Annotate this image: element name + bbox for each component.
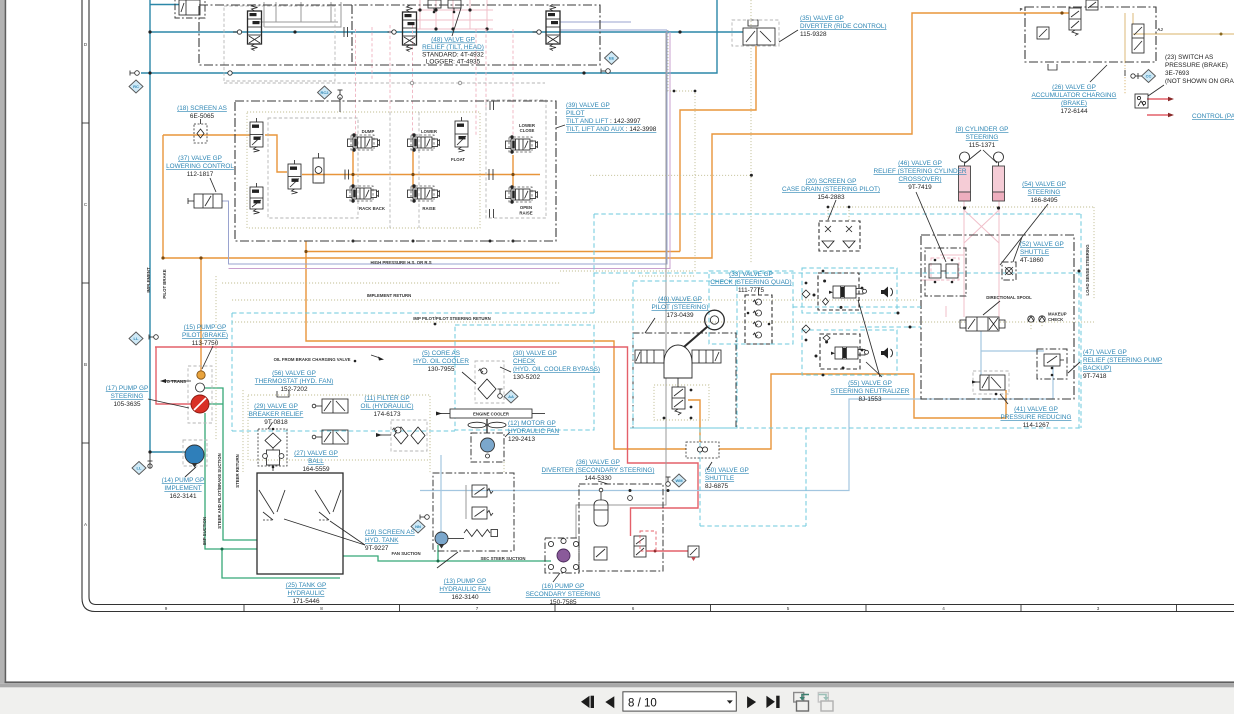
svg-text:(25) TANK GP: (25) TANK GP — [286, 582, 327, 589]
svg-text:BREAKER RELIEF: BREAKER RELIEF — [249, 411, 304, 418]
svg-text:166-8495: 166-8495 — [1030, 197, 1057, 204]
port circle on teal pilot line — [228, 71, 232, 75]
svg-text:CHECK: CHECK — [1048, 317, 1064, 322]
black dash-dot implement pilot valve bank (39) — [235, 101, 556, 241]
black dash-dot relief backup box (47) — [1037, 349, 1067, 379]
valve shuttle (52) — [1002, 262, 1016, 280]
svg-text:RAISE: RAISE — [422, 206, 435, 211]
wire orange screen feed — [163, 134, 250, 136]
svg-text:(35) VALVE GP: (35) VALVE GP — [800, 15, 844, 22]
svg-text:BALL: BALL — [308, 458, 324, 465]
wire orange bank verticals — [352, 151, 354, 188]
wire green tank bottom loop — [222, 549, 340, 578]
capacitor break on orange bus — [488, 169, 490, 180]
svg-text:B: B — [84, 362, 87, 367]
svg-text:IMPLEMENT: IMPLEMENT — [164, 485, 201, 492]
screen gp case drain (20) — [819, 221, 860, 251]
bank compensator — [313, 158, 324, 183]
svg-text:(BRAKE): (BRAKE) — [1061, 100, 1087, 107]
svg-text:105-3635: 105-3635 — [113, 401, 140, 408]
svg-text:9T-0818: 9T-0818 — [264, 419, 288, 426]
lowering control leader — [210, 178, 216, 192]
svg-text:164-5559: 164-5559 — [302, 466, 329, 473]
svg-text:EE: EE — [609, 56, 615, 61]
shuttle 52 leader — [1013, 237, 1022, 262]
relief cartridges above tilt valve — [428, 0, 441, 8]
svg-text:(41) VALVE GP: (41) VALVE GP — [1014, 406, 1058, 413]
valve breaker relief (29) and ball (27) assembly — [258, 429, 287, 466]
grey dashed pilot return horizontal — [224, 82, 545, 84]
wire lavender top links — [560, 21, 631, 23]
valve pressure reducing (41) internals — [980, 375, 1005, 390]
implement spool OPEN RAISE — [511, 189, 530, 200]
svg-text:MAKEUP: MAKEUP — [1048, 312, 1067, 317]
black dash-dot pilot steering enclosure (40) — [633, 333, 736, 428]
svg-text:OIL (HYDRAULIC): OIL (HYDRAULIC) — [360, 403, 413, 410]
frame row ticks — [82, 122, 89, 124]
svg-text:(56) VALVE GP: (56) VALVE GP — [272, 370, 316, 377]
wire orange lowering loop left — [162, 135, 164, 258]
EE diamond — [605, 52, 619, 65]
41 leader — [1000, 394, 1008, 404]
crossover relief valve (46) internals — [929, 264, 941, 278]
olive dotted bank inner box — [247, 112, 480, 228]
wire tan drop to switch — [1124, 62, 1126, 94]
svg-text:129-2413: 129-2413 — [508, 436, 535, 443]
svg-text:172-6144: 172-6144 — [1060, 108, 1087, 115]
svg-text:STANDARD: 4T-4932: STANDARD: 4T-4932 — [422, 51, 484, 58]
grey dashed bank column lines — [389, 112, 391, 228]
wire red to secondary diverter valve — [646, 550, 688, 552]
svg-text:5: 5 — [787, 606, 790, 611]
svg-text:SEC STEER SUCTION: SEC STEER SUCTION — [481, 556, 526, 561]
wire red pump riser — [156, 347, 191, 404]
light blue port circle — [628, 496, 633, 501]
wire grey top bus — [264, 2, 341, 27]
svg-text:RACK BACK: RACK BACK — [359, 206, 386, 211]
toolbar duplicate-page icon (disabled) — [818, 693, 828, 703]
wire orange H2 bus — [163, 13, 1069, 258]
pilot steering green dotted box — [654, 385, 709, 420]
bank mid valve — [288, 164, 301, 189]
svg-text:(16) PUMP GP: (16) PUMP GP — [542, 583, 585, 590]
wire pink cylinder lines — [963, 201, 965, 317]
cyan dashed big box right — [594, 272, 1081, 274]
svg-text:HYDRAULIC FAN: HYDRAULIC FAN — [439, 586, 491, 593]
wire teal top stub — [150, 4, 179, 6]
viewer background left strip — [0, 0, 5, 683]
bank solenoid valve upper — [250, 122, 263, 147]
core as hyd oil cooler (5) check bypass — [475, 361, 504, 403]
svg-text:PRESSURE (BRAKE): PRESSURE (BRAKE) — [1165, 62, 1228, 69]
svg-text:CHECK (STEERING QUAD): CHECK (STEERING QUAD) — [710, 279, 791, 286]
svg-text:162-3140: 162-3140 — [451, 594, 478, 601]
svg-text:171-5446: 171-5446 — [292, 598, 319, 605]
implement spool RACK BACK — [352, 188, 371, 199]
wire light blue cooler return bus — [440, 455, 442, 535]
green junction dots — [221, 548, 224, 551]
svg-text:6E-5065: 6E-5065 — [190, 113, 215, 120]
svg-text:ACCUMULATOR CHARGING: ACCUMULATOR CHARGING — [1032, 92, 1117, 99]
pump gp pilot brake (15) group — [188, 366, 212, 423]
wire orange implement bus in valve bank — [302, 174, 540, 176]
wire light blue spool drop — [980, 331, 982, 375]
svg-text:(8) CYLINDER GP: (8) CYLINDER GP — [956, 126, 1009, 133]
bank solenoid valve lower — [250, 187, 263, 209]
svg-text:ENGINE COOLER: ENGINE COOLER — [473, 412, 510, 417]
neutralizer leader lines — [858, 300, 880, 377]
cylinder port dots — [963, 206, 966, 209]
wire teal pilot line with vertical riser — [141, 0, 717, 73]
svg-text:PILOT: PILOT — [566, 110, 585, 117]
svg-text:AA: AA — [508, 394, 514, 399]
implement spool LOWER CLOSE — [511, 139, 530, 150]
svg-text:IMP SUCTION: IMP SUCTION — [202, 517, 207, 545]
svg-text:(40) VALVE GP: (40) VALVE GP — [658, 296, 702, 303]
teal junction dots — [148, 30, 151, 33]
svg-text:(50) VALVE GP: (50) VALVE GP — [705, 467, 749, 474]
pilot steering dome — [664, 345, 692, 378]
svg-text:RELIEF (STEERING PUMP: RELIEF (STEERING PUMP — [1083, 357, 1162, 364]
accumulator charging relief — [1132, 24, 1144, 53]
wire orange bank internal link — [265, 135, 287, 172]
svg-text:DIVERTER (SECONDARY STEERING): DIVERTER (SECONDARY STEERING) — [542, 467, 655, 474]
steering pump leader — [148, 399, 189, 408]
brake pump leader — [202, 346, 213, 369]
olive dotted pilot return lines — [215, 276, 217, 440]
pump gp secondary steering (16) — [545, 538, 579, 573]
neutralizer black boxes — [818, 273, 859, 310]
capacitor break on grey dashed riser — [489, 101, 491, 110]
left margin diamond RC — [129, 80, 143, 93]
svg-text:HYD. OIL COOLER: HYD. OIL COOLER — [413, 358, 469, 365]
breaker relief leader — [268, 423, 272, 429]
svg-text:8J-6875: 8J-6875 — [705, 483, 729, 490]
valve M relief secondary — [688, 546, 699, 557]
svg-text:(HYD. OIL COOLER BYPASS): (HYD. OIL COOLER BYPASS) — [513, 366, 600, 373]
svg-text:(23) SWITCH AS: (23) SWITCH AS — [1165, 54, 1213, 61]
implement spool DUMP — [353, 137, 372, 148]
svg-text:FAN SUCTION: FAN SUCTION — [391, 551, 420, 556]
neutralizer lower horn — [881, 348, 888, 359]
wire teal tilt main line — [150, 31, 770, 33]
pink dashed risers to implement bank — [355, 29, 357, 135]
crossover leader — [916, 192, 946, 262]
valve steering neutralizer (55) upper — [833, 286, 856, 298]
svg-text:FLOAT: FLOAT — [451, 157, 465, 162]
svg-text:8J-1553: 8J-1553 — [858, 396, 882, 403]
bank bottom border dots — [352, 240, 355, 243]
svg-text:TILT AND LIFT : 142-3997: TILT AND LIFT : 142-3997 — [566, 118, 641, 125]
valve check steering quad (33) — [745, 295, 772, 344]
valve steering neutralizer lower — [835, 347, 858, 359]
svg-text:LOWER: LOWER — [421, 129, 438, 134]
svg-text:RAISE: RAISE — [519, 211, 532, 216]
svg-text:RELIEF (STEERING CYLINDER: RELIEF (STEERING CYLINDER — [873, 168, 966, 175]
svg-text:CONTROL (PA: CONTROL (PA — [1192, 113, 1234, 120]
svg-text:173-0439: 173-0439 — [666, 312, 693, 319]
cylinder leader lines — [965, 150, 981, 163]
svg-text:LL: LL — [134, 336, 139, 341]
neutralizer upper horn — [881, 287, 888, 298]
wire teal implement pump suction — [150, 451, 185, 453]
cyan dashed lower left region — [699, 428, 701, 526]
wire orange screen drop — [200, 258, 202, 371]
svg-text:TO TRANS: TO TRANS — [164, 379, 186, 384]
svg-text:LL: LL — [137, 466, 142, 471]
switch leader line — [1148, 85, 1164, 96]
wire orange shuttle to steering valve — [719, 374, 1006, 449]
left margin diamond LL implement — [132, 462, 146, 475]
svg-text:STEER RETURN: STEER RETURN — [235, 454, 240, 487]
breaker relief port symbol — [277, 391, 289, 397]
svg-text:9T-9227: 9T-9227 — [365, 545, 389, 552]
svg-text:152-7202: 152-7202 — [280, 386, 307, 393]
toolbar next-page button — [747, 696, 756, 708]
svg-text:P: P — [1020, 7, 1023, 12]
grey dashed pilot box above bank — [224, 6, 335, 81]
svg-text:CHECK: CHECK — [513, 358, 536, 365]
svg-text:(33) VALVE GP: (33) VALVE GP — [729, 271, 773, 278]
svg-text:(30) VALVE GP: (30) VALVE GP — [513, 350, 557, 357]
CC diamond with port — [1142, 70, 1156, 83]
valve thermostat lower — [322, 430, 348, 444]
svg-text:(17) PUMP GP: (17) PUMP GP — [106, 385, 149, 392]
valve main control tilt V1 — [248, 11, 262, 44]
valve pilot steering (40) steering wheel — [705, 310, 725, 330]
svg-text:STEERING NEUTRALIZER: STEERING NEUTRALIZER — [831, 388, 910, 395]
svg-text:RC: RC — [133, 84, 139, 89]
capacitor break on grey dashed box bottom — [489, 209, 491, 218]
toolbar first-page button — [581, 696, 590, 708]
left margin key top — [135, 71, 140, 76]
olive dotted fan circuit lines — [429, 417, 431, 473]
wire green fan suction — [343, 556, 551, 561]
makeup check valves — [1028, 316, 1034, 322]
svg-text:LOWERING CONTROL: LOWERING CONTROL — [166, 163, 234, 170]
svg-text:(37) VALVE GP: (37) VALVE GP — [178, 155, 222, 162]
svg-text:7: 7 — [476, 606, 479, 611]
orange junction dots — [304, 250, 307, 253]
accumulator charging pilot box — [1037, 27, 1049, 39]
svg-text:STEERING: STEERING — [111, 393, 144, 400]
screen leader — [828, 200, 836, 220]
svg-text:174-6173: 174-6173 — [373, 411, 400, 418]
svg-text:(36) VALVE GP: (36) VALVE GP — [576, 459, 620, 466]
valve main control aux V3 — [546, 11, 560, 44]
svg-text:130-5202: 130-5202 — [513, 374, 540, 381]
port circles on teal main line — [237, 30, 241, 34]
svg-text:(20) SCREEN GP: (20) SCREEN GP — [806, 178, 857, 185]
implement spool RAISE — [413, 188, 432, 199]
svg-text:OIL FROM BRAKE CHARGING VALVE: OIL FROM BRAKE CHARGING VALVE — [274, 357, 351, 362]
svg-text:DIRECTIONAL SPOOL: DIRECTIONAL SPOOL — [986, 295, 1032, 300]
svg-text:8: 8 — [320, 606, 323, 611]
svg-text:113-7750: 113-7750 — [192, 340, 219, 347]
svg-text:(39) VALVE GP: (39) VALVE GP — [566, 102, 610, 109]
svg-text:CROSSOVER): CROSSOVER) — [899, 176, 942, 183]
svg-text:STEERING: STEERING — [966, 134, 999, 141]
diverter solenoid valve — [634, 536, 646, 557]
ride control diverter valve (35) — [743, 28, 775, 45]
svg-text:(15) PUMP GP: (15) PUMP GP — [184, 324, 227, 331]
wire orange diverter drain — [680, 46, 756, 252]
black dash-dot secondary diverter enclosure (36) — [579, 484, 663, 571]
svg-text:HIGH PRESSURE H.S. OR R.S: HIGH PRESSURE H.S. OR R.S — [370, 260, 431, 265]
diverter small valve — [594, 547, 607, 560]
svg-text:(26) VALVE GP: (26) VALVE GP — [1052, 84, 1096, 91]
svg-text:112-1817: 112-1817 — [187, 171, 214, 178]
wire pink tilt head lines — [417, 9, 493, 11]
steering cylinders (8) — [959, 166, 971, 192]
svg-text:IMPLEMENT RETURN: IMPLEMENT RETURN — [367, 293, 411, 298]
cyan dashed pilot steering box — [633, 281, 737, 428]
svg-text:115-9328: 115-9328 — [800, 31, 827, 38]
tank gp hydraulic (25) — [257, 473, 343, 574]
cyan dashed secondary steering link — [1078, 271, 1080, 428]
float valve — [455, 121, 468, 147]
svg-text:HYDRAULIC: HYDRAULIC — [288, 590, 325, 597]
olive dotted box thermostat-filter region — [248, 395, 430, 460]
svg-text:IMP PILOT/PILOT STEERING RETUR: IMP PILOT/PILOT STEERING RETURN — [413, 316, 491, 321]
svg-text:111-7775: 111-7775 — [738, 287, 765, 294]
svg-text:SHUTTLE: SHUTTLE — [1020, 249, 1049, 256]
pilot steering lower solenoid — [677, 378, 679, 387]
wire pink spool links — [945, 306, 947, 317]
bank pilot diamond and key — [318, 86, 332, 99]
svg-text:SECONDARY STEERING: SECONDARY STEERING — [526, 591, 601, 598]
svg-text:RELIEF (TILT, HEAD): RELIEF (TILT, HEAD) — [422, 44, 484, 51]
svg-text:RC2: RC2 — [320, 90, 329, 95]
svg-text:(5) CORE AS: (5) CORE AS — [422, 350, 460, 357]
cyan dashed quad links — [793, 306, 921, 308]
svg-text:(52) VALVE GP: (52) VALVE GP — [1020, 241, 1064, 248]
svg-text:HYD. TANK: HYD. TANK — [365, 537, 399, 544]
motor leader — [505, 432, 510, 437]
svg-text:4: 4 — [942, 606, 945, 611]
black dash-dot accumulator charging enclosure (26) — [1025, 7, 1156, 62]
wire green tank suction imp — [205, 388, 257, 540]
valve shuttle (50) — [686, 442, 719, 458]
wire light blue relief link — [981, 350, 1044, 352]
valve thermostat (56) upper — [322, 399, 348, 413]
relief steering pump backup (47) internals — [1044, 354, 1060, 366]
page bottom edge and viewer gap — [5, 681, 1234, 683]
valve lowering control (37) — [194, 194, 222, 208]
cyan dashed mid horizontal — [232, 312, 594, 314]
svg-text:AJ: AJ — [1157, 27, 1163, 32]
accumulator — [594, 500, 608, 526]
wire orange pilot solenoid drop — [688, 400, 700, 442]
toolbar background — [0, 687, 1234, 714]
svg-text:CLOSE: CLOSE — [520, 128, 535, 133]
wire orange lowering vertical to cooler line — [306, 241, 686, 449]
valve top-left pilot — [179, 0, 200, 15]
svg-text:4T-1860: 4T-1860 — [1020, 257, 1044, 264]
svg-text:(11) FILTER GP: (11) FILTER GP — [364, 395, 409, 402]
svg-text:3E-7693: 3E-7693 — [1165, 70, 1190, 77]
filter gp oil (11) — [391, 420, 427, 451]
svg-text:CC: CC — [1146, 74, 1152, 79]
implement pump leader — [185, 467, 196, 477]
svg-text:(29) VALVE GP: (29) VALVE GP — [254, 403, 298, 410]
svg-text:STEERING: STEERING — [1028, 189, 1061, 196]
cyan dashed steering region top — [594, 213, 1081, 215]
svg-text:(46) VALVE GP: (46) VALVE GP — [898, 160, 942, 167]
wire magenta line — [229, 32, 671, 269]
svg-text:(19) SCREEN AS: (19) SCREEN AS — [365, 529, 415, 536]
capacitor break symbol on teal line — [343, 27, 345, 37]
WM diamond and key — [672, 474, 686, 487]
screen AS (18) symbol — [194, 124, 207, 143]
engine cooler — [450, 409, 532, 418]
svg-text:CASE DRAIN (STEERING PILOT): CASE DRAIN (STEERING PILOT) — [782, 186, 880, 193]
wire green tank suction steer — [205, 413, 257, 549]
svg-text:8 / 10: 8 / 10 — [628, 697, 657, 709]
black dash-dot fan pump enclosure (13) — [433, 473, 514, 551]
quad check side dots — [747, 312, 750, 315]
grey dashed bank pilot rect — [486, 100, 546, 218]
svg-text:TILT, LIFT AND AUX : 142-3998: TILT, LIFT AND AUX : 142-3998 — [566, 126, 657, 133]
cyan dashed check quad box — [709, 271, 793, 344]
svg-text:(14) PUMP GP: (14) PUMP GP — [162, 477, 205, 484]
svg-text:3: 3 — [1097, 606, 1100, 611]
svg-text:BACKUP): BACKUP) — [1083, 365, 1111, 372]
pilot steering valve wings — [635, 350, 664, 363]
tank screen leaders — [284, 519, 365, 545]
implement spool LOWER — [413, 137, 432, 148]
olive dotted bus continuation — [590, 174, 751, 176]
svg-text:(27) VALVE GP: (27) VALVE GP — [294, 450, 338, 457]
svg-text:115-1371: 115-1371 — [969, 142, 996, 149]
svg-text:SHUTTLE: SHUTTLE — [705, 475, 734, 482]
black dash-dot steering valve enclosure (54) — [921, 235, 1074, 399]
frame column ticks — [243, 605, 245, 612]
wire tan accumulator AJ line — [1133, 33, 1234, 35]
svg-text:WM: WM — [675, 478, 683, 483]
pump gp hydraulic fan (13) internals — [472, 485, 487, 497]
svg-text:IMPLEMENT: IMPLEMENT — [146, 267, 151, 293]
toolbar previous-page button — [605, 696, 614, 708]
neutralizer check diamonds — [802, 290, 810, 298]
NN diamond and key — [411, 520, 425, 533]
svg-text:PILOT (STEERING): PILOT (STEERING) — [651, 304, 708, 311]
svg-text:LOAD SENSE STEERING: LOAD SENSE STEERING — [1085, 244, 1090, 296]
svg-text:6: 6 — [632, 606, 635, 611]
svg-text:PILOT (BRAKE): PILOT (BRAKE) — [182, 332, 228, 339]
cyan dashed cooler region — [455, 325, 594, 430]
wire teal pilot supply vertical — [149, 0, 151, 452]
black dash-dot crossover box (46) — [925, 248, 966, 296]
svg-text:(48) VALVE GP: (48) VALVE GP — [431, 37, 475, 44]
pink dashed crossover box — [931, 258, 959, 280]
black dash-dot relief tilt head enclosure (48) — [199, 5, 600, 65]
cyan dashed neutralizer boxes — [802, 268, 897, 313]
svg-text:(NOT SHOWN ON GRA: (NOT SHOWN ON GRA — [1165, 78, 1234, 85]
svg-text:130-7955: 130-7955 — [427, 366, 454, 373]
directional spool — [966, 317, 999, 331]
charging small top valve — [1086, 0, 1098, 10]
wire orange H1 bus — [306, 251, 680, 253]
svg-text:(55) VALVE GP: (55) VALVE GP — [848, 380, 892, 387]
fan pump relief links — [465, 485, 467, 519]
svg-text:(18) SCREEN AS: (18) SCREEN AS — [177, 105, 227, 112]
svg-text:9T-7418: 9T-7418 — [1083, 373, 1107, 380]
wire green fan pump drop — [437, 545, 439, 561]
wire red brake switch lines — [1147, 98, 1168, 100]
wire red steering pump pressure — [155, 347, 698, 536]
wire grey secondary steering pilot — [576, 32, 666, 538]
